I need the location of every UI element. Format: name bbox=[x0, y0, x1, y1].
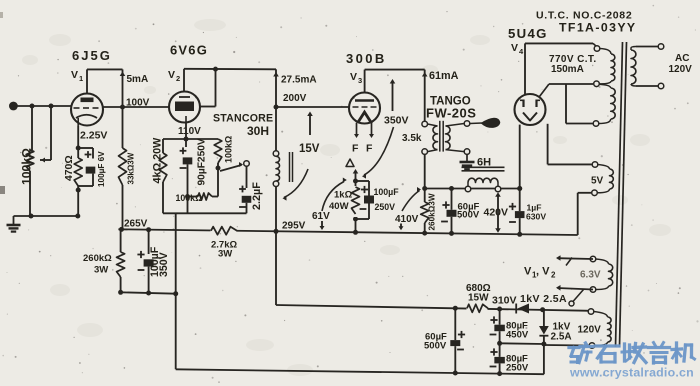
svg-text:2.2µF: 2.2µF bbox=[251, 182, 263, 210]
svg-text:3W: 3W bbox=[94, 265, 108, 276]
svg-text:260kΩ: 260kΩ bbox=[83, 253, 112, 264]
svg-text:1kV 2.5A: 1kV 2.5A bbox=[520, 293, 567, 305]
svg-text:TF1A-03YY: TF1A-03YY bbox=[559, 21, 637, 35]
svg-text:1: 1 bbox=[79, 74, 83, 83]
svg-text:410V: 410V bbox=[395, 214, 419, 225]
svg-text:6J5G: 6J5G bbox=[72, 48, 112, 63]
svg-text:100kΩ: 100kΩ bbox=[224, 136, 234, 163]
svg-text:100µF 6V: 100µF 6V bbox=[97, 151, 106, 187]
svg-text:4kΩ 20W: 4kΩ 20W bbox=[152, 137, 164, 184]
svg-text:260kΩ3W: 260kΩ3W bbox=[428, 193, 437, 230]
svg-text:V: V bbox=[511, 42, 518, 54]
svg-text:FW-20S: FW-20S bbox=[426, 106, 476, 121]
svg-text:61V: 61V bbox=[312, 211, 330, 222]
svg-text:2.25V: 2.25V bbox=[80, 130, 107, 142]
svg-text:6.3V: 6.3V bbox=[580, 270, 601, 281]
svg-text:, V: , V bbox=[536, 266, 550, 278]
svg-text:2.5A: 2.5A bbox=[551, 332, 572, 343]
svg-text:5mA: 5mA bbox=[127, 74, 149, 85]
svg-text:100V: 100V bbox=[126, 98, 150, 109]
svg-text:AC: AC bbox=[675, 53, 689, 64]
svg-text:3: 3 bbox=[358, 76, 362, 85]
svg-text:310V: 310V bbox=[492, 295, 517, 307]
svg-text:120V: 120V bbox=[669, 64, 693, 75]
svg-text:420V: 420V bbox=[484, 207, 509, 219]
svg-text:V: V bbox=[524, 266, 532, 278]
svg-text:6V6G: 6V6G bbox=[170, 43, 208, 58]
svg-text:40W: 40W bbox=[329, 201, 349, 212]
svg-text:100kΩ: 100kΩ bbox=[20, 148, 34, 185]
svg-text:265V: 265V bbox=[124, 219, 148, 230]
svg-text:2: 2 bbox=[176, 74, 180, 83]
svg-text:STANCORE: STANCORE bbox=[213, 113, 273, 125]
svg-text:350V: 350V bbox=[158, 252, 170, 277]
svg-text:F: F bbox=[352, 143, 359, 155]
svg-text:150mA: 150mA bbox=[551, 64, 584, 75]
svg-text:100kΩ: 100kΩ bbox=[176, 193, 203, 203]
svg-text:3.5k: 3.5k bbox=[402, 133, 422, 144]
svg-text:30H: 30H bbox=[247, 124, 269, 138]
svg-text:V: V bbox=[71, 69, 78, 81]
svg-text:5U4G: 5U4G bbox=[508, 26, 548, 41]
svg-text:450V: 450V bbox=[506, 330, 529, 341]
svg-text:250V: 250V bbox=[506, 363, 529, 374]
svg-text:120V: 120V bbox=[578, 325, 602, 336]
svg-text:2: 2 bbox=[551, 271, 556, 280]
svg-text:F: F bbox=[366, 143, 373, 155]
svg-text:33kΩ3W: 33kΩ3W bbox=[127, 152, 136, 184]
svg-text:250V: 250V bbox=[375, 202, 396, 212]
svg-text:110V: 110V bbox=[178, 126, 201, 137]
svg-text:470Ω: 470Ω bbox=[64, 155, 75, 181]
svg-text:350V: 350V bbox=[384, 115, 409, 127]
svg-text:500V: 500V bbox=[457, 210, 480, 221]
svg-text:3W: 3W bbox=[218, 249, 232, 260]
svg-text:V: V bbox=[350, 71, 357, 83]
svg-text:15W: 15W bbox=[468, 293, 489, 304]
svg-text:295V: 295V bbox=[282, 221, 306, 232]
svg-text:V: V bbox=[168, 69, 175, 81]
svg-text:300B: 300B bbox=[346, 51, 387, 66]
svg-text:500V: 500V bbox=[424, 341, 447, 352]
svg-text:90µF250V: 90µF250V bbox=[197, 138, 208, 185]
svg-text:200V: 200V bbox=[283, 93, 307, 104]
svg-text:www.crystalradio.cn: www.crystalradio.cn bbox=[569, 366, 694, 380]
svg-text:6H: 6H bbox=[477, 157, 491, 169]
svg-text:630V: 630V bbox=[526, 212, 546, 222]
svg-text:27.5mA: 27.5mA bbox=[281, 75, 317, 86]
svg-text:5V: 5V bbox=[591, 176, 604, 187]
svg-text:1kΩ: 1kΩ bbox=[334, 190, 353, 201]
svg-text:61mA: 61mA bbox=[429, 70, 459, 82]
svg-text:100µF: 100µF bbox=[374, 187, 400, 197]
svg-text:15V: 15V bbox=[299, 143, 320, 155]
